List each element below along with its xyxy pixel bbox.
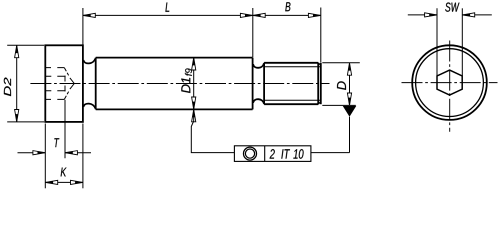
extension line SW left [436, 8, 438, 76]
extension line D2 top [7, 44, 44, 46]
extension line head left face down [44, 124, 46, 189]
label B [285, 2, 290, 11]
thread relief top arc [253, 63, 264, 67]
datum leader vertical [349, 117, 351, 153]
thread end chamfer diagonal bottom [318, 102, 321, 105]
dimension D1 arrow bottom [192, 97, 196, 109]
dimension T arrow right [65, 151, 77, 155]
label D1 f9 [181, 68, 192, 93]
dimension B line [253, 14, 321, 16]
thread relief right wall [263, 63, 265, 104]
shoulder top edge [96, 57, 253, 59]
label D [337, 81, 346, 90]
thread minor top [265, 66, 321, 68]
dimension L arrow left [83, 13, 95, 17]
hex socket [437, 70, 462, 95]
label T [54, 138, 59, 147]
dimension SW line left tail [408, 14, 437, 16]
feature control frame divider [264, 146, 266, 162]
dimension SW arrow right [462, 13, 474, 17]
dimension D2 arrow top [15, 45, 19, 57]
socket drill cone upper [70, 78, 74, 84]
end view outer circle [412, 45, 487, 120]
dimension D2 line [16, 45, 18, 122]
extension line L/B boundary [252, 8, 254, 57]
dimension D arrow bottom [347, 93, 351, 105]
extension line L left [82, 8, 84, 45]
label D2 [4, 78, 11, 97]
dimension B arrow right [308, 13, 320, 17]
shoulder right face [252, 58, 254, 110]
dimension SW line right tail [462, 14, 492, 16]
tolerance leader tail [191, 109, 234, 152]
socket bottom vertical [64, 76, 66, 92]
dimension K line [45, 181, 83, 183]
feature control frame box [234, 146, 311, 162]
dimension D1 arrow top [192, 58, 196, 70]
thread relief bottom arc [253, 99, 264, 103]
dimension T line left tail [18, 152, 46, 154]
label K [61, 168, 67, 177]
dimension T arrow left [33, 151, 45, 155]
centerline main axis [30, 83, 329, 85]
tolerance text IT [281, 149, 290, 158]
dimension L line [83, 14, 253, 16]
socket hidden lower inner line [46, 90, 66, 92]
dimension D arrow top [347, 63, 351, 75]
extension line D bottom [322, 104, 356, 106]
thread end face [320, 63, 322, 104]
dimension B arrow left [253, 13, 265, 17]
extension line socket depth down [64, 100, 66, 158]
socket chamfer diagonal lower [64, 92, 68, 100]
concentricity symbol outer circle [244, 147, 257, 160]
thread end chamfer diagonal top [318, 63, 321, 66]
socket chamfer diagonal upper [64, 68, 68, 76]
concentricity symbol inner circle [245, 149, 254, 158]
thread chamfer line [317, 63, 319, 104]
end view horizontal centerline [402, 82, 498, 84]
shoulder bottom edge [96, 108, 253, 110]
dimension D line [349, 63, 351, 106]
undercut groove top arc [83, 59, 95, 64]
socket hidden lower outer line [46, 98, 65, 100]
dimension D2 arrow bottom [15, 110, 19, 122]
thread major bottom [264, 103, 318, 105]
extension line D2 bottom [7, 121, 44, 123]
dimension L arrow right [240, 13, 252, 17]
tolerance text [270, 149, 275, 158]
dimension K arrow right [71, 180, 83, 184]
datum triangle [343, 106, 357, 117]
extension line B right [320, 8, 322, 63]
socket hidden upper outer line [46, 67, 65, 69]
datum leader horizontal [311, 152, 350, 154]
extension line D top [322, 62, 360, 64]
undercut groove right wall [95, 58, 97, 110]
thread major top [264, 62, 318, 64]
end view vertical centerline [449, 41, 451, 132]
dimension SW arrow left [425, 13, 437, 17]
socket drill cone lower [70, 84, 74, 90]
undercut groove bottom arc [83, 104, 95, 109]
tolerance leader arrow [192, 109, 196, 121]
thread minor bottom [265, 99, 321, 101]
label SW [445, 3, 459, 12]
dimension D1 line [193, 58, 195, 110]
extension line SW right [461, 8, 463, 76]
dimension K arrow left [45, 180, 57, 184]
tolerance text 10 [293, 149, 303, 159]
end view chamfer circle [416, 49, 484, 117]
extension line head right face down [82, 124, 84, 189]
head outline [45, 45, 83, 122]
dimension T line right tail [65, 152, 91, 154]
label L [165, 3, 169, 12]
socket hidden upper inner line [46, 75, 66, 77]
